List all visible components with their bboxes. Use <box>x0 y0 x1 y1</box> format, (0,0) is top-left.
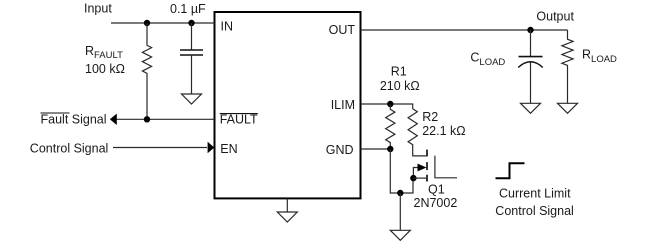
capacitor CLOAD <box>518 30 543 103</box>
node junction GND R1 <box>387 146 393 152</box>
resistor R1 <box>386 104 395 149</box>
resistor R2 <box>408 109 417 156</box>
wire input to IN pin <box>111 22 215 24</box>
wire GND down to source node <box>390 149 413 193</box>
wire Q1 source lead <box>413 177 427 179</box>
svg-text:R2: R2 <box>422 110 438 124</box>
svg-text:IN: IN <box>221 20 234 34</box>
svg-text:FAULT: FAULT <box>220 113 258 127</box>
wire ground stem <box>399 193 401 230</box>
svg-text:22.1 kΩ: 22.1 kΩ <box>422 124 465 138</box>
svg-text:GND: GND <box>326 143 354 157</box>
node Current Limit Control Signal label <box>495 187 574 219</box>
wire fault signal <box>114 118 215 120</box>
svg-text:R1: R1 <box>391 65 407 79</box>
ground under IC <box>277 198 297 222</box>
wire control signal to EN <box>113 147 207 149</box>
ground under CLOAD <box>521 103 541 113</box>
svg-text:0.1 µF: 0.1 µF <box>170 2 206 16</box>
wire GND pin to R1 bottom <box>361 148 391 150</box>
IC U1 <box>215 12 361 198</box>
svg-text:Output: Output <box>536 9 574 23</box>
transistor Q1 gate <box>435 156 457 178</box>
svg-text:210 kΩ: 210 kΩ <box>380 79 420 93</box>
transistor Q1 body arrow wire <box>413 168 420 179</box>
svg-text:OUT: OUT <box>329 23 356 37</box>
transistor Q1 drain lead <box>413 155 427 157</box>
svg-text:Q1: Q1 <box>428 183 445 197</box>
svg-text:EN: EN <box>220 142 237 156</box>
wire ILIM node <box>361 104 413 109</box>
transistor Q1 body arrowhead <box>418 164 427 172</box>
ground under C1 <box>182 94 202 104</box>
ground under RLOAD <box>558 103 578 113</box>
arrow fault signal left <box>110 114 117 125</box>
node junction Q1 source <box>410 175 416 181</box>
node junction ground stem <box>397 190 403 196</box>
svg-text:Control Signal: Control Signal <box>495 204 574 218</box>
svg-text:Current Limit: Current Limit <box>499 187 571 201</box>
node junction C1 top <box>188 20 194 26</box>
node junction RFAULT bottom <box>144 116 150 122</box>
step waveform symbol <box>496 163 525 178</box>
svg-text:Input: Input <box>84 2 112 16</box>
wire OUT to output node <box>361 29 568 31</box>
svg-text:Control Signal: Control Signal <box>30 141 109 155</box>
svg-text:Fault Signal: Fault Signal <box>41 113 107 127</box>
node junction R_FAULT top <box>144 20 150 26</box>
resistor RLOAD <box>562 30 573 103</box>
ground under Q1 <box>390 230 410 240</box>
node junction output <box>527 27 533 33</box>
capacitor C1 0.1uF <box>180 23 203 94</box>
resistor RFAULT <box>142 23 151 119</box>
svg-text:100 kΩ: 100 kΩ <box>85 62 125 76</box>
arrow into EN pin <box>208 142 215 153</box>
transistor Q1 channel bars <box>426 150 428 182</box>
svg-text:ILIM: ILIM <box>331 98 355 112</box>
node Fault Signal label <box>41 113 107 127</box>
node junction R1 top <box>387 101 393 107</box>
svg-text:2N7002: 2N7002 <box>414 196 458 210</box>
pin label FAULT with overline <box>220 113 258 127</box>
